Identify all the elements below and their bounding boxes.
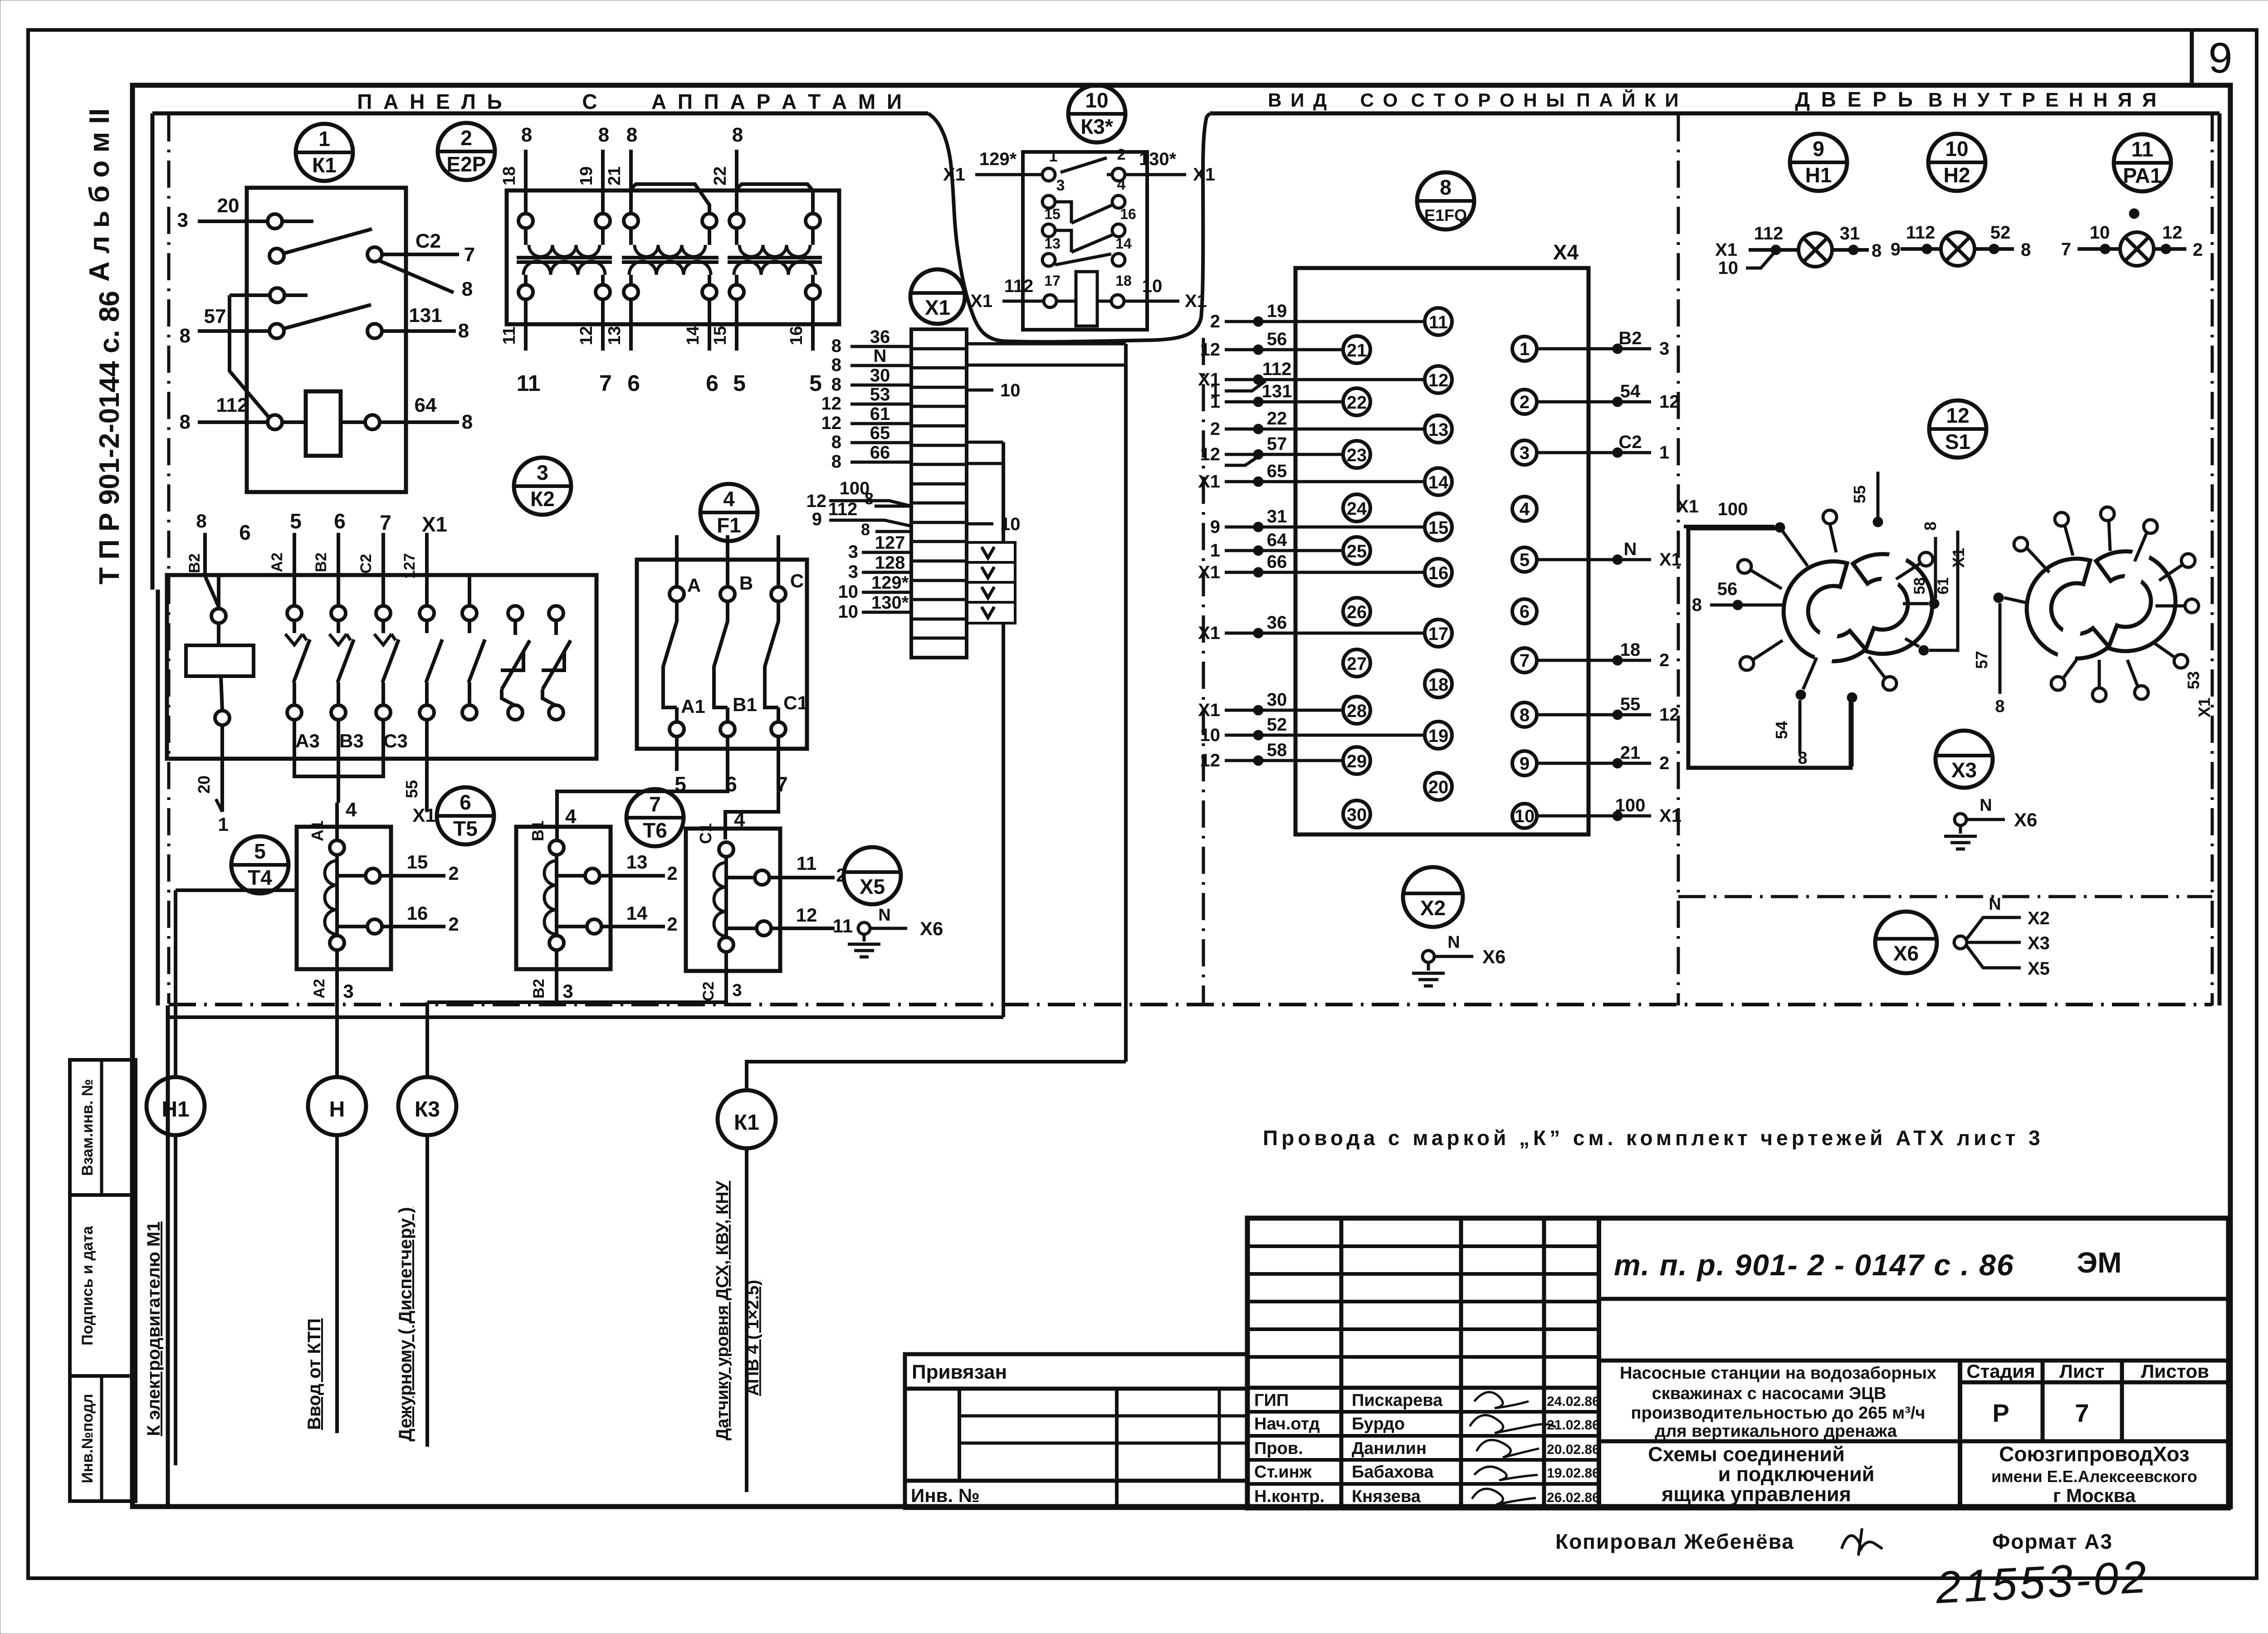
flag H1 (182, 1221, 206, 1446)
svg-text:3: 3 (848, 562, 858, 582)
node circle 10/K3* (1068, 85, 1125, 142)
svg-text:14: 14 (626, 902, 648, 924)
svg-text:Нач.отд: Нач.отд (1254, 1415, 1320, 1434)
svg-text:6: 6 (239, 521, 251, 544)
svg-text:4: 4 (565, 805, 577, 828)
svg-text:Формат А3: Формат А3 (1992, 1530, 2113, 1553)
svg-text:64: 64 (1267, 530, 1287, 550)
svg-text:Н2: Н2 (1944, 163, 1970, 187)
flag K3 (434, 1225, 458, 1428)
right dash-dot boundary (2211, 114, 2214, 1005)
svg-text:20.02.86: 20.02.86 (1547, 1442, 1600, 1457)
circle K3 external (398, 1077, 456, 1135)
svg-text:129*: 129* (979, 149, 1017, 169)
svg-text:64: 64 (415, 394, 437, 416)
svg-text:29: 29 (1347, 751, 1367, 771)
svg-text:С2: С2 (1618, 432, 1642, 452)
svg-text:16: 16 (1120, 206, 1136, 222)
svg-text:Х1: Х1 (422, 512, 447, 536)
wire X1 strip to bus (vertical 2212) (1002, 442, 1005, 542)
node circle 12/S1 (1929, 400, 1986, 458)
svg-text:15: 15 (1044, 206, 1061, 222)
svg-text:12: 12 (796, 904, 817, 926)
margin stamp table (70, 1060, 136, 1501)
node circle 2/E2P (438, 123, 495, 180)
svg-text:Насосные станции на водозаборн: Насосные станции на водозаборных (1620, 1364, 1936, 1383)
svg-text:С2: С2 (415, 230, 441, 252)
svg-text:11: 11 (797, 853, 816, 874)
svg-text:10: 10 (1200, 725, 1221, 745)
svg-text:В И Д: В И Д (1268, 89, 1329, 111)
svg-text:9: 9 (1520, 754, 1530, 774)
svg-text:14: 14 (1115, 235, 1132, 252)
svg-text:6: 6 (334, 509, 346, 533)
svg-text:8: 8 (831, 355, 841, 375)
svg-text:Х6: Х6 (1893, 941, 1919, 965)
svg-text:5: 5 (290, 509, 302, 533)
svg-text:17: 17 (1428, 624, 1449, 644)
svg-text:Х1: Х1 (1198, 472, 1220, 492)
svg-text:11: 11 (500, 327, 519, 345)
svg-text:10: 10 (2090, 223, 2110, 243)
svg-text:31: 31 (1267, 507, 1287, 527)
svg-text:9: 9 (812, 509, 822, 529)
svg-text:8: 8 (462, 411, 473, 433)
svg-text:Х6: Х6 (2014, 809, 2037, 830)
svg-text:Т6: Т6 (643, 819, 667, 842)
svg-text:10: 10 (1515, 806, 1535, 826)
bottom dash-dot boundary (169, 1003, 2212, 1006)
svg-text:54: 54 (1620, 381, 1641, 401)
node circle 10/H2 (1928, 134, 1985, 191)
svg-text:2: 2 (1659, 650, 1669, 670)
svg-text:8: 8 (1995, 697, 2004, 716)
wire T6 bottom to bus (427, 971, 726, 1002)
svg-text:57: 57 (1267, 434, 1287, 454)
svg-text:Х6: Х6 (1482, 946, 1505, 967)
svg-text:СоюзгипроводХоз: СоюзгипроводХоз (1999, 1442, 2190, 1466)
svg-text:22: 22 (711, 166, 730, 185)
svg-text:31: 31 (1840, 224, 1860, 244)
svg-text:8: 8 (180, 325, 191, 347)
svg-text:127: 127 (401, 553, 418, 579)
transformer block E2P box (507, 190, 839, 324)
svg-text:61: 61 (1935, 577, 1952, 595)
svg-text:В2: В2 (530, 979, 547, 998)
svg-text:12: 12 (577, 326, 596, 345)
node circle 5/T4 (231, 836, 288, 893)
svg-text:8: 8 (831, 452, 841, 472)
lamp H2 (1941, 232, 1975, 266)
node circle 9/H1 (1790, 134, 1847, 191)
svg-text:131: 131 (1262, 381, 1292, 401)
svg-text:2: 2 (2193, 240, 2203, 260)
svg-text:Е2Р: Е2Р (447, 152, 486, 176)
svg-text:24.02.86: 24.02.86 (1547, 1394, 1600, 1409)
svg-text:52: 52 (1990, 223, 2011, 243)
svg-text:11: 11 (1429, 312, 1448, 332)
svg-text:12: 12 (807, 491, 827, 511)
svg-text:8: 8 (2021, 240, 2031, 260)
svg-text:П А Н Е Л Ь: П А Н Е Л Ь (357, 90, 504, 113)
svg-text:К2: К2 (530, 487, 555, 511)
svg-text:130*: 130* (871, 593, 909, 613)
svg-text:6: 6 (1520, 602, 1530, 622)
svg-text:17: 17 (1044, 273, 1061, 289)
svg-text:21.02.86: 21.02.86 (1547, 1418, 1600, 1433)
fuse block F1 box (637, 560, 807, 749)
svg-text:N: N (1980, 796, 1992, 815)
svg-text:4: 4 (346, 799, 357, 821)
svg-text:11: 11 (833, 915, 853, 937)
svg-text:19: 19 (577, 166, 596, 185)
svg-text:N: N (1989, 895, 2001, 914)
transformer E2P top leads (524, 150, 528, 214)
svg-text:ЭМ: ЭМ (2077, 1246, 2122, 1279)
node circle 4/F1 (700, 484, 758, 541)
svg-text:13: 13 (1428, 420, 1449, 440)
rotary switch S1a 55 lead (1873, 517, 1883, 527)
svg-text:12: 12 (1200, 340, 1221, 360)
svg-text:Х1: Х1 (1198, 700, 1220, 720)
svg-text:3: 3 (537, 461, 548, 484)
rotary switch S1a terminals (1684, 525, 1774, 528)
svg-text:Х1: Х1 (1659, 550, 1681, 570)
svg-text:А П П А Р А Т А М И: А П П А Р А Т А М И (651, 90, 904, 113)
svg-text:С3: С3 (383, 730, 408, 751)
svg-text:8: 8 (1921, 522, 1940, 531)
svg-text:12: 12 (1659, 705, 1680, 725)
svg-text:8: 8 (831, 432, 841, 452)
svg-text:9: 9 (1813, 137, 1824, 161)
rotary switch S1b crescents (2027, 559, 2109, 658)
svg-text:Р: Р (1992, 1399, 2009, 1427)
contactor K2 coil (186, 645, 254, 676)
svg-text:N: N (874, 346, 887, 366)
svg-text:В: В (739, 572, 753, 594)
svg-text:61: 61 (870, 404, 890, 424)
svg-text:Н1: Н1 (161, 1097, 189, 1122)
svg-text:Взам.инв. №: Взам.инв. № (79, 1079, 96, 1176)
node circle 8/E1FQ (1417, 172, 1474, 229)
svg-text:N: N (1624, 539, 1637, 559)
svg-text:15: 15 (1428, 518, 1449, 538)
svg-text:58: 58 (1267, 740, 1287, 760)
svg-text:11: 11 (2131, 137, 2154, 161)
svg-text:ГИП: ГИП (1254, 1391, 1289, 1410)
svg-text:8: 8 (1520, 705, 1530, 725)
svg-text:30: 30 (870, 366, 890, 385)
svg-text:Х5: Х5 (860, 875, 885, 898)
lamp PA1 (2120, 232, 2154, 266)
svg-text:А: А (687, 575, 701, 596)
svg-text:Е1FQ: Е1FQ (1424, 206, 1467, 224)
title block signatures (1474, 1392, 1529, 1408)
svg-text:3: 3 (177, 209, 188, 231)
V-terminal box (967, 542, 1015, 623)
relay K3* pins 1-2 contact (1042, 168, 1055, 181)
node circle 11/PA1 (2114, 134, 2171, 191)
svg-text:24: 24 (1347, 499, 1367, 519)
relay K3* coil (1076, 272, 1097, 326)
svg-text:Данилин: Данилин (1352, 1439, 1427, 1458)
svg-text:2: 2 (448, 913, 459, 935)
wire X1 strip to K1 flag (vertical 2482) (1124, 344, 1128, 1062)
connector X4 right wires (1537, 347, 1651, 351)
svg-text:26: 26 (1347, 602, 1367, 622)
svg-text:18: 18 (500, 166, 519, 185)
svg-text:19: 19 (1428, 726, 1449, 746)
terminal strip X1 (911, 329, 967, 658)
svg-text:8: 8 (831, 336, 841, 356)
relay K3* external wires (975, 173, 1042, 176)
svg-text:Т4: Т4 (248, 866, 272, 889)
contactor K2 bottom bracket A3-C3 (293, 720, 296, 759)
svg-text:S1: S1 (1945, 430, 1970, 454)
svg-text:66: 66 (870, 443, 890, 463)
svg-text:18: 18 (1620, 640, 1641, 660)
svg-text:27: 27 (1347, 654, 1367, 674)
drawing outline right (2218, 113, 2222, 1005)
svg-text:Инв. №: Инв. № (911, 1485, 980, 1506)
svg-text:12: 12 (1946, 404, 1969, 427)
svg-text:52: 52 (1267, 715, 1287, 735)
lamp H1 (1799, 233, 1832, 267)
svg-text:Бабахова: Бабахова (1352, 1463, 1434, 1482)
svg-text:11: 11 (517, 371, 541, 396)
svg-text:Стадия: Стадия (1966, 1361, 2035, 1382)
svg-text:К1: К1 (312, 153, 337, 177)
svg-text:Х1: Х1 (1659, 806, 1681, 826)
svg-text:20: 20 (195, 776, 213, 794)
svg-text:производительностью до 265 м³/: производительностью до 265 м³/ч (1631, 1404, 1926, 1423)
svg-text:2: 2 (667, 913, 677, 935)
svg-text:К электродвигателю М1: К электродвигателю М1 (144, 1221, 164, 1436)
svg-text:1: 1 (318, 127, 330, 151)
svg-text:В3: В3 (339, 730, 364, 751)
svg-text:57: 57 (204, 305, 226, 327)
svg-text:8: 8 (861, 520, 870, 539)
relay K1 terminal 3-20 (268, 214, 282, 229)
svg-text:Н.контр.: Н.контр. (1254, 1487, 1325, 1506)
svg-text:Ввод от КТП: Ввод от КТП (304, 1318, 324, 1430)
svg-text:Провода с маркой „К” см.: Провода с маркой „К” см. комплект чертеж… (1263, 1126, 2044, 1150)
svg-text:112: 112 (1906, 223, 1936, 243)
svg-text:112: 112 (1262, 359, 1292, 379)
svg-text:Х3: Х3 (2028, 933, 2050, 953)
svg-text:65: 65 (870, 423, 890, 443)
svg-text:В Н У Т Р Е Н Н Я Я: В Н У Т Р Е Н Н Я Я (1928, 89, 2159, 111)
svg-text:Х3: Х3 (1951, 758, 1977, 782)
svg-text:65: 65 (1267, 461, 1287, 481)
connector X4 pin circles right column (1512, 337, 1537, 361)
relay K1 box (247, 188, 406, 492)
svg-text:Х5: Х5 (2028, 959, 2050, 979)
relay K3* pins 3-4 (1042, 195, 1055, 208)
svg-text:131: 131 (409, 304, 442, 327)
svg-text:30: 30 (1347, 805, 1367, 825)
svg-text:54: 54 (1772, 721, 1791, 739)
fuse block F1 elements (670, 587, 684, 601)
rotary switch S1a enclosure (1688, 528, 1851, 768)
solder-view area dash-dot boundary (1202, 338, 1205, 1005)
svg-text:8: 8 (458, 320, 469, 342)
svg-text:20: 20 (1428, 777, 1449, 797)
wire F1-B1 to T5 (557, 771, 728, 840)
cloud boundary around K3* (928, 113, 1210, 342)
svg-text:8: 8 (598, 124, 609, 146)
svg-text:12: 12 (821, 413, 842, 433)
svg-text:3: 3 (732, 981, 742, 1000)
relay K1 contact lower (269, 324, 284, 338)
svg-text:8: 8 (732, 124, 743, 146)
svg-text:23: 23 (1347, 445, 1367, 465)
circle H external (308, 1077, 366, 1135)
svg-text:7: 7 (2061, 239, 2071, 259)
svg-text:18: 18 (1115, 273, 1132, 289)
svg-text:21: 21 (1347, 341, 1367, 361)
svg-text:15: 15 (711, 326, 730, 345)
svg-text:22: 22 (1267, 409, 1287, 429)
svg-text:А2: А2 (311, 979, 328, 998)
svg-text:55: 55 (1850, 485, 1869, 503)
svg-text:16: 16 (407, 902, 428, 924)
svg-text:22: 22 (1347, 393, 1367, 413)
transformer T6 (686, 829, 780, 971)
svg-text:53: 53 (2184, 671, 2203, 689)
svg-text:1: 1 (1210, 541, 1220, 561)
svg-text:А л ь б о м II: А л ь б о м II (84, 108, 115, 282)
svg-text:53: 53 (870, 385, 890, 405)
svg-text:4: 4 (1117, 176, 1126, 193)
svg-text:5: 5 (1520, 550, 1530, 570)
relay K3* box (1023, 152, 1147, 330)
svg-text:1: 1 (1210, 392, 1220, 412)
svg-text:112: 112 (1754, 224, 1784, 244)
svg-text:14: 14 (684, 326, 703, 345)
svg-text:112: 112 (216, 394, 249, 416)
svg-text:Пров.: Пров. (1254, 1439, 1303, 1458)
svg-text:25: 25 (1347, 541, 1367, 561)
svg-text:36: 36 (1267, 613, 1287, 633)
svg-text:К3*: К3* (1080, 115, 1113, 138)
svg-text:8: 8 (1798, 749, 1807, 768)
flag H (343, 1227, 368, 1434)
svg-text:26.02.86: 26.02.86 (1547, 1490, 1600, 1505)
svg-text:С2: С2 (700, 981, 717, 1001)
svg-text:2: 2 (1210, 312, 1220, 332)
svg-text:14: 14 (1428, 473, 1449, 493)
svg-text:Х4: Х4 (1553, 240, 1579, 264)
svg-text:13: 13 (1044, 235, 1061, 252)
wire from K1 contact to 8 (377, 260, 454, 293)
svg-text:Подпись и дата: Подпись и дата (79, 1225, 96, 1346)
svg-text:7: 7 (599, 371, 612, 396)
svg-text:2: 2 (460, 126, 472, 150)
wire to K1 external (747, 1062, 1126, 1090)
svg-text:В2: В2 (313, 552, 330, 572)
svg-text:Х1: Х1 (1715, 240, 1737, 260)
connector X4 pin circles left column (1343, 336, 1370, 363)
svg-text:Х6: Х6 (920, 918, 943, 939)
connector circle X2 (1403, 867, 1463, 927)
wire T4 bottom (335, 969, 339, 1005)
svg-text:10: 10 (1000, 380, 1021, 400)
connector circle X5 (844, 847, 901, 904)
svg-text:г Москва: г Москва (2053, 1485, 2136, 1506)
svg-text:112: 112 (1004, 276, 1034, 296)
transformer E2P bottom leads (524, 299, 528, 351)
svg-text:8: 8 (865, 489, 874, 508)
svg-text:5: 5 (254, 839, 266, 863)
svg-text:1: 1 (1520, 339, 1530, 359)
rotary switch S1a crescents (1784, 561, 1866, 661)
svg-text:4: 4 (723, 487, 735, 511)
svg-text:2: 2 (667, 863, 677, 884)
svg-text:56: 56 (1717, 579, 1738, 599)
svg-text:1: 1 (1659, 443, 1669, 463)
svg-text:8: 8 (831, 375, 841, 395)
svg-text:16: 16 (1428, 563, 1449, 583)
svg-text:4: 4 (1520, 499, 1530, 519)
svg-text:8: 8 (196, 510, 206, 532)
transformer T5 (516, 827, 611, 969)
svg-text:55: 55 (402, 780, 421, 798)
title block verticals (1339, 1218, 1344, 1508)
svg-text:28: 28 (1347, 701, 1367, 721)
svg-text:13: 13 (626, 851, 648, 873)
bus wire bottom of panel (167, 1015, 1003, 1019)
svg-text:5: 5 (733, 371, 746, 396)
wire to H1 external (176, 888, 296, 892)
svg-text:Х1: Х1 (2195, 697, 2214, 717)
svg-text:100: 100 (1615, 795, 1646, 815)
svg-text:Х1: Х1 (1677, 497, 1699, 517)
svg-text:Н1: Н1 (1805, 163, 1832, 187)
contactor K2 box (167, 575, 596, 759)
terminal strip X1 left wires group2 (829, 501, 911, 506)
svg-text:Копировал Жебенёва: Копировал Жебенёва (1555, 1530, 1794, 1553)
svg-text:Х2: Х2 (2028, 908, 2050, 928)
ground with X6 tap (panel) (858, 922, 870, 934)
contactor K2 pole arrows (285, 634, 303, 645)
svg-text:21: 21 (605, 166, 624, 185)
svg-text:Листов: Листов (2141, 1361, 2209, 1382)
svg-text:Х1: Х1 (1198, 623, 1220, 643)
svg-text:В1: В1 (528, 820, 547, 841)
door X6 strip dash-dot boundary (1678, 895, 2212, 898)
wire T5 bottom (555, 969, 558, 1005)
svg-text:К3: К3 (415, 1097, 440, 1122)
svg-text:30: 30 (1267, 690, 1287, 710)
rotary switch S1b terminals (1994, 593, 2004, 603)
transformer E2P jumpers (631, 184, 709, 214)
svg-text:имени Е.Е.Алексеевского: имени Е.Е.Алексеевского (1991, 1467, 2197, 1486)
connector X4 pin circles middle column (1425, 308, 1452, 335)
svg-text:С О: С О (1360, 89, 1400, 111)
wire F1-C1 to T6 (725, 771, 778, 839)
svg-text:8: 8 (1692, 595, 1702, 615)
svg-text:С Т О Р О Н Ы: С Т О Р О Н Ы (1411, 89, 1567, 111)
svg-text:6: 6 (459, 790, 471, 814)
svg-text:9: 9 (1891, 239, 1901, 259)
svg-text:12: 12 (2162, 223, 2183, 243)
svg-text:F1: F1 (717, 513, 741, 537)
svg-text:3: 3 (1659, 339, 1669, 359)
terminal strip X1 right wires (967, 342, 1126, 346)
svg-text:ящика управления: ящика управления (1661, 1483, 1851, 1506)
svg-text:56: 56 (1267, 329, 1287, 349)
